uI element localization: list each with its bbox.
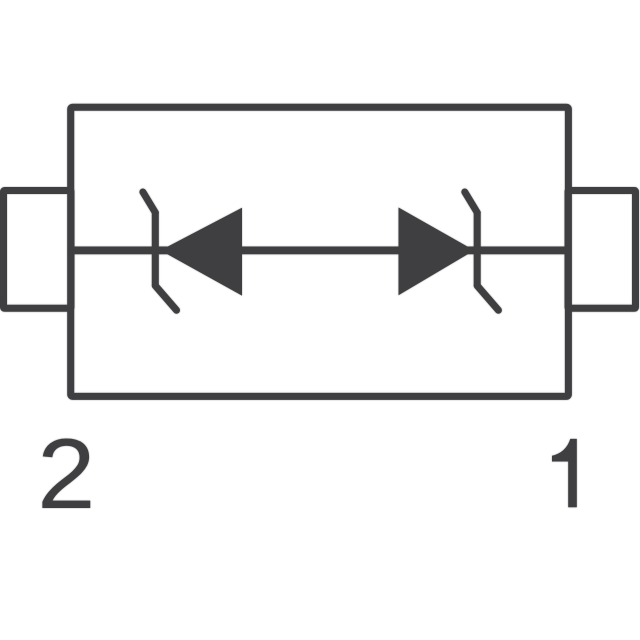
svg-text:2: 2 — [37, 419, 95, 530]
wire (horizontal net pin2 to pin1) — [71, 246, 569, 254]
package body outline — [71, 107, 569, 396]
zener diode D1 (left, cathode bar with bent ends) — [143, 192, 242, 310]
zener diode D2 (right, cathode bar with bent ends) — [399, 192, 499, 310]
pin 1 pad (right terminal) — [568, 191, 636, 309]
pin label 1 — [552, 439, 577, 507]
pin 2 pad (left terminal) — [4, 191, 72, 309]
